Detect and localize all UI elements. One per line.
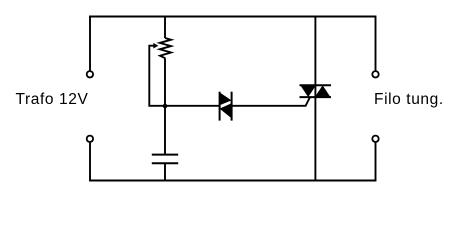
wire top bus [89, 16, 376, 18]
wire left-top vertical [89, 16, 91, 71]
wire triac main vertical [314, 17, 316, 181]
capacitor C1 [152, 155, 178, 164]
wire resistor bottom lead to node A [164, 58, 166, 106]
wiper arrowhead of R1 [153, 43, 158, 49]
terminal top-right [372, 71, 378, 77]
node A junction dot [163, 104, 168, 109]
potentiometer R1 zigzag body [160, 38, 171, 58]
wire capacitor bottom lead [164, 163, 166, 180]
wire left-bottom vertical [89, 143, 91, 182]
wire resistor top lead [164, 17, 166, 39]
wire diac to triac gate [232, 97, 310, 106]
wire node A down to capacitor [164, 106, 166, 155]
terminal bottom-left [87, 136, 93, 142]
wire right-bottom vertical [375, 143, 377, 182]
svg-text:Trafo 12V: Trafo 12V [16, 91, 89, 108]
triac Q1 [300, 85, 332, 97]
wire bottom bus [89, 180, 376, 182]
terminal bottom-right [372, 136, 378, 142]
terminal top-left [87, 71, 93, 77]
wire wiper arm of R1 [149, 46, 165, 106]
wire right-top vertical [375, 16, 377, 71]
wire node A to diac [165, 105, 220, 107]
svg-text:Filo tung.: Filo tung. [374, 91, 444, 108]
diac D1 [220, 92, 232, 121]
